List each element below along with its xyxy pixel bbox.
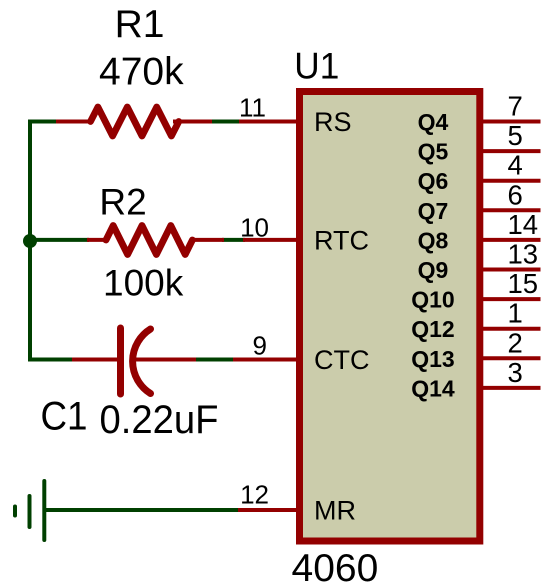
svg-text:1: 1 — [508, 298, 523, 329]
svg-text:Q6: Q6 — [418, 168, 449, 194]
svg-text:4060: 4060 — [292, 547, 379, 586]
svg-text:R2: R2 — [99, 181, 146, 222]
svg-text:0.22uF: 0.22uF — [100, 398, 219, 442]
svg-text:R1: R1 — [115, 3, 165, 46]
svg-text:12: 12 — [240, 480, 269, 510]
svg-text:10: 10 — [240, 213, 269, 243]
svg-text:13: 13 — [508, 239, 539, 270]
svg-text:4: 4 — [508, 150, 523, 181]
svg-text:CTC: CTC — [314, 345, 370, 375]
svg-text:9: 9 — [253, 331, 267, 361]
svg-text:7: 7 — [508, 91, 523, 122]
svg-text:6: 6 — [508, 179, 523, 210]
svg-text:U1: U1 — [294, 46, 339, 87]
svg-text:MR: MR — [314, 496, 356, 526]
svg-text:14: 14 — [508, 209, 539, 240]
svg-text:RS: RS — [314, 107, 352, 137]
svg-text:Q14: Q14 — [411, 375, 455, 401]
svg-text:Q7: Q7 — [418, 198, 449, 224]
svg-text:2: 2 — [508, 327, 523, 358]
svg-text:C1: C1 — [41, 395, 88, 439]
svg-text:RTC: RTC — [314, 225, 369, 255]
svg-text:11: 11 — [239, 93, 266, 123]
svg-text:Q5: Q5 — [418, 139, 449, 165]
svg-text:Q8: Q8 — [418, 227, 449, 253]
svg-text:3: 3 — [508, 357, 523, 388]
svg-text:Q9: Q9 — [418, 257, 449, 283]
svg-text:Q13: Q13 — [411, 346, 454, 372]
svg-text:470k: 470k — [99, 51, 184, 94]
svg-text:Q4: Q4 — [418, 109, 449, 135]
svg-text:5: 5 — [508, 120, 523, 151]
svg-text:100k: 100k — [103, 262, 184, 303]
svg-text:Q10: Q10 — [411, 287, 454, 313]
svg-text:15: 15 — [508, 268, 539, 299]
svg-text:Q12: Q12 — [411, 316, 454, 342]
